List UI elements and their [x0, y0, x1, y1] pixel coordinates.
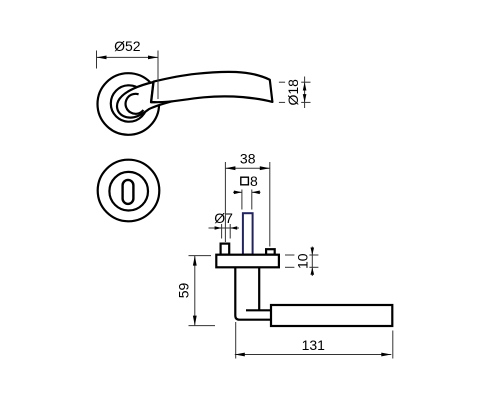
left screw lug [221, 244, 230, 255]
dimension Ø52 line [97, 51, 159, 100]
escutcheon inner circle [109, 172, 148, 211]
dimension 10 arrows [311, 248, 315, 256]
dimension square-8 lines [233, 190, 261, 210]
dimension Ø52 arrows [97, 56, 107, 60]
lever grip (top view) [151, 72, 272, 102]
escutcheon outer circle [98, 160, 160, 222]
svg-text:10: 10 [295, 253, 311, 269]
svg-text:8: 8 [250, 173, 258, 189]
dimension 38 arrows [225, 166, 235, 170]
svg-text:131: 131 [302, 337, 326, 353]
dimension Ø7 lines [209, 224, 240, 239]
dimension Ø18 arrows [303, 82, 307, 90]
lever grip (side view) [271, 305, 392, 326]
keyhole [123, 180, 134, 204]
dimension Ø7 arrows [215, 226, 222, 229]
spindle (blue square bar) [243, 213, 253, 254]
neck inner loop arc [126, 94, 144, 114]
handle neck (side view) [235, 268, 271, 320]
dimension 59 arrows [193, 256, 197, 266]
dimension 131 lines [235, 322, 393, 359]
dimension Ø18 lines [279, 77, 311, 109]
dimension 10 lines [285, 247, 318, 277]
svg-text:Ø18: Ø18 [285, 79, 301, 106]
handle neck (wraps around rose centre) [117, 82, 193, 118]
dimension 59 lines [189, 256, 216, 326]
svg-text:38: 38 [240, 151, 256, 167]
svg-text:Ø7: Ø7 [214, 210, 233, 226]
rose plate (side view) [216, 255, 279, 268]
dimension 131 arrows [235, 353, 245, 357]
svg-text:59: 59 [176, 283, 192, 299]
right screw lug [266, 249, 275, 254]
rose inner ring [111, 85, 147, 121]
dimension square-8 symbol [241, 177, 249, 185]
svg-text:Ø52: Ø52 [114, 38, 141, 54]
rose outer circle [98, 73, 160, 135]
dimension square-8 arrows [234, 191, 242, 195]
dimension 38 lines [225, 162, 269, 247]
